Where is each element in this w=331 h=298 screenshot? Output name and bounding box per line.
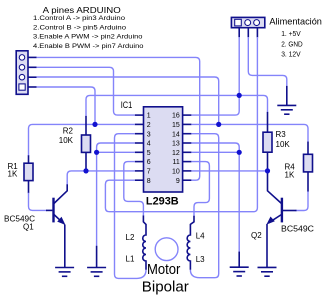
- wire OUT2: IC pin 6 to motor L2 top: [124, 162, 144, 216]
- net IN2: node to IC pin 7: [86, 170, 135, 172]
- IC left pin stubs 1-8: [135, 115, 144, 180]
- wire +5V right branch to R3 top: [239, 95, 267, 112]
- svg-text:L2: L2: [126, 233, 135, 242]
- svg-text:1. +5V: 1. +5V: [281, 31, 301, 38]
- svg-text:6: 6: [147, 159, 151, 166]
- ground (Q2 emitter): [258, 267, 277, 276]
- svg-text:15: 15: [172, 122, 180, 129]
- J1 pin stubs: [28, 57, 37, 87]
- wire +5V down branch to IC pin 16: [191, 95, 239, 115]
- wire GND IC pin 12: [191, 151, 239, 153]
- IC pin numbers left: [147, 113, 151, 185]
- net IN3: IC pin 10 to R3/Q2 node: [191, 170, 267, 172]
- svg-text:Bipolar: Bipolar: [142, 279, 189, 295]
- svg-text:7: 7: [147, 169, 151, 176]
- resistor R3: [263, 112, 272, 171]
- svg-text:Alimentación: Alimentación: [269, 17, 322, 28]
- svg-text:3.Enable A PWM -> pin2 Arduino: 3.Enable A PWM -> pin2 Arduino: [33, 34, 143, 41]
- inductor L2/L1 (left coil): [143, 216, 146, 270]
- junction GND right: [237, 150, 242, 155]
- junction Control-A / pin2: [92, 122, 97, 127]
- svg-text:R2: R2: [63, 127, 74, 136]
- transistor Q2 BC549C: [266, 171, 296, 267]
- wire Control-B: J1 to node on pin-15 net: [37, 77, 219, 124]
- svg-text:8: 8: [147, 178, 151, 185]
- ground (IC pins 12,13): [230, 267, 249, 276]
- wire GND IC pin 4: [97, 143, 135, 152]
- junction R3/Q2/pin10: [265, 168, 270, 173]
- wire Q1 collector to pin-7 node: [67, 171, 86, 185]
- connector J1 (4-pin SIL, Arduino pins): [16, 51, 28, 95]
- svg-text:1K: 1K: [285, 170, 295, 179]
- svg-text:3: 3: [147, 131, 151, 138]
- svg-text:13: 13: [172, 141, 180, 148]
- wire OUT3: IC pin 11 to motor L4 top: [191, 162, 209, 217]
- svg-text:2. GND: 2. GND: [281, 41, 303, 48]
- svg-text:L293B: L293B: [146, 195, 179, 207]
- wire Enable-A: J1 to IC pin 1: [37, 67, 135, 115]
- wire R1 bottom to Q1 base: [29, 193, 48, 211]
- svg-text:L1: L1: [126, 255, 135, 264]
- svg-text:1: 1: [147, 113, 151, 120]
- wire R4 bottom to Q2 base: [296, 191, 309, 210]
- resistor R1: [24, 155, 33, 193]
- ground (power connector): [277, 105, 296, 114]
- svg-text:1K: 1K: [8, 169, 18, 178]
- ground (IC pins 4,5): [87, 268, 106, 277]
- IC pin numbers right: [172, 113, 180, 185]
- svg-text:4.Enable B PWM -> pin7 Arduino: 4.Enable B PWM -> pin7 Arduino: [33, 43, 144, 50]
- junction R2/Q1/pin7: [83, 168, 88, 173]
- IC right pin stubs 16-9: [183, 115, 192, 180]
- svg-text:BC549C: BC549C: [281, 224, 314, 233]
- svg-text:10: 10: [172, 169, 180, 176]
- transistor Q1 BC549C: [46, 184, 67, 268]
- svg-text:3. 12V: 3. 12V: [281, 51, 301, 58]
- resistor R2: [82, 116, 91, 171]
- svg-text:IC1: IC1: [121, 100, 133, 110]
- svg-text:5: 5: [147, 150, 151, 157]
- svg-text:10K: 10K: [59, 136, 74, 145]
- inductor L4/L3 (right coil): [187, 216, 194, 270]
- svg-text:4: 4: [147, 141, 151, 148]
- svg-text:9: 9: [176, 178, 180, 185]
- svg-text:2: 2: [147, 122, 151, 129]
- motor circle: [155, 238, 178, 261]
- svg-text:Motor: Motor: [147, 262, 181, 278]
- wire OUT1: IC pin 3 to motor L1 bottom: [115, 134, 147, 279]
- wire GND IC pin 5: [97, 151, 135, 153]
- wire GND IC pin 13: [191, 143, 239, 152]
- svg-text:A pines ARDUINO: A pines ARDUINO: [43, 6, 121, 15]
- svg-text:Q1: Q1: [23, 222, 34, 231]
- svg-text:R3: R3: [276, 130, 287, 139]
- wire +5V from J2 pin1 down: [238, 37, 240, 95]
- svg-text:16: 16: [172, 113, 180, 120]
- junction +5V: [237, 93, 242, 98]
- wire GND right down: [238, 152, 240, 252]
- net IN1: R1 top / pin-2 line: [29, 124, 135, 156]
- svg-text:10K: 10K: [276, 140, 291, 149]
- svg-text:14: 14: [172, 131, 180, 138]
- wire GND left down: [96, 152, 98, 246]
- connector J2 (3-pin SIL, Alimentacion): [231, 17, 264, 27]
- svg-text:2.Control B -> pin5 Arduino: 2.Control B -> pin5 Arduino: [33, 24, 126, 31]
- wire +5V left branch to R2 top: [86, 95, 239, 116]
- svg-text:1.Control A -> pin3 Arduino: 1.Control A -> pin3 Arduino: [33, 15, 125, 22]
- svg-text:L3: L3: [196, 255, 205, 264]
- wire Control-A: J1 to node on pin-2 net: [37, 87, 95, 124]
- svg-text:L4: L4: [196, 231, 205, 240]
- junction Control-B / pin15: [216, 122, 221, 127]
- J2 pin stubs: [239, 28, 257, 38]
- junction GND left: [94, 150, 99, 155]
- wire GND J2 pin2 to ground: [248, 37, 286, 86]
- svg-text:Q2: Q2: [251, 231, 262, 240]
- svg-text:11: 11: [173, 159, 180, 166]
- IC U1 L293B body: [144, 107, 183, 192]
- wire OUT4: IC pin 14 to motor L3 bottom: [190, 134, 218, 278]
- net IN4: IC pin 15 line to R4 top: [191, 124, 308, 142]
- svg-text:12: 12: [172, 150, 180, 157]
- resistor R4: [304, 142, 313, 192]
- ground (Q1 emitter): [55, 268, 74, 277]
- wire Enable-B: J1 pin top to IC pin 9: [37, 57, 200, 180]
- wire 12V net: IC pin 8 around bottom up to J2 pin3: [105, 37, 257, 212]
